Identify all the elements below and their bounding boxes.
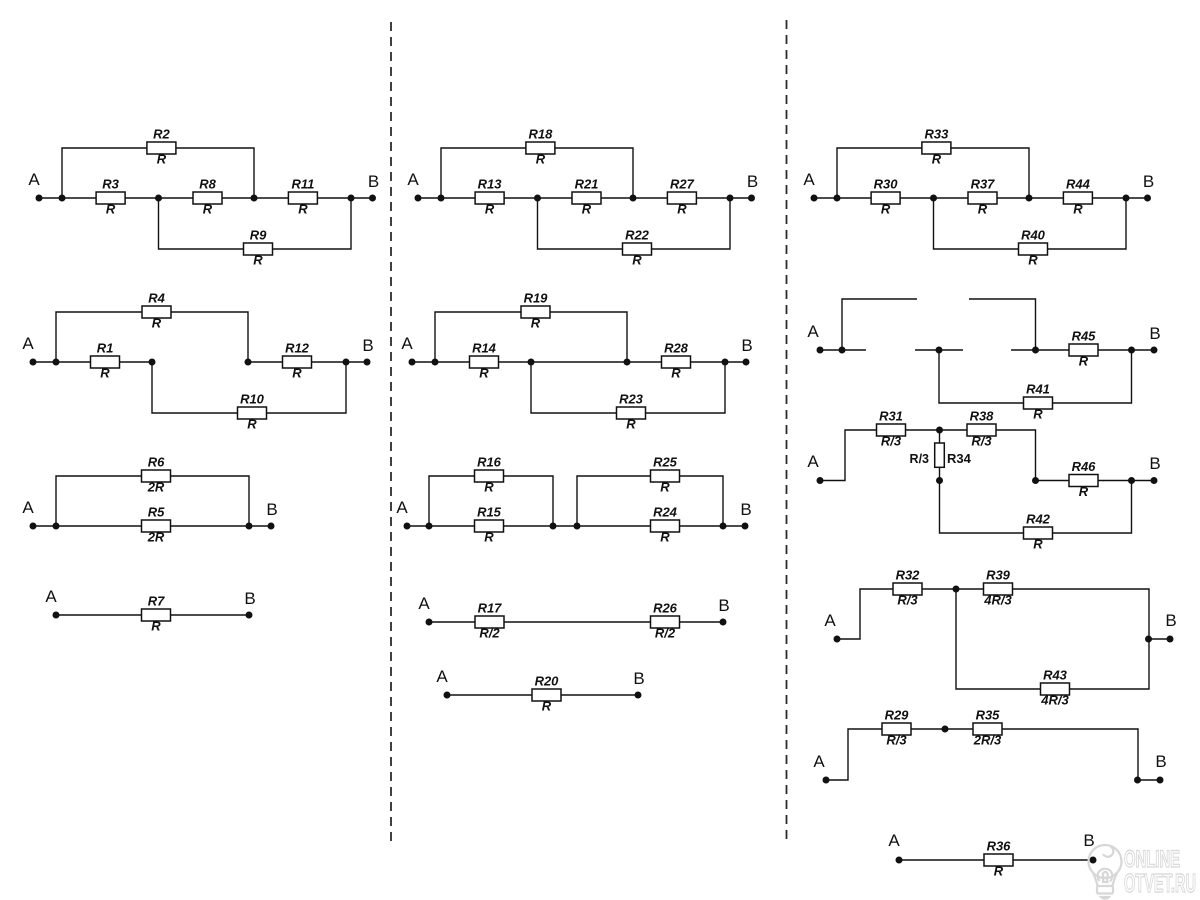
wire top branch R25 [577, 476, 723, 526]
junction [930, 195, 937, 202]
wire top branch right (open) [969, 299, 1036, 350]
node A [807, 452, 823, 484]
node B [266, 500, 277, 530]
junction [624, 359, 631, 366]
svg-text:R36: R36 [987, 839, 1012, 854]
resistor R14 [470, 341, 499, 381]
resistor R9 [244, 228, 273, 268]
svg-text:B: B [1149, 454, 1160, 473]
junction [1134, 777, 1141, 784]
junction M [936, 427, 943, 434]
svg-text:R: R [1028, 253, 1038, 268]
svg-text:B: B [740, 500, 751, 519]
junction [1032, 347, 1039, 354]
junction [834, 195, 841, 202]
wire top branch R2 [62, 148, 254, 198]
svg-text:R/2: R/2 [655, 626, 676, 641]
svg-text:OTVET.RU: OTVET.RU [1124, 868, 1196, 898]
resistor R31 [877, 409, 906, 449]
junction [59, 195, 66, 202]
resistor R25 [651, 455, 680, 495]
wire main A-B [418, 197, 752, 199]
svg-text:R8: R8 [199, 177, 216, 192]
svg-text:R20: R20 [535, 674, 560, 689]
svg-text:A: A [436, 667, 448, 686]
wire main left [33, 361, 152, 363]
wire main A-B [814, 197, 1148, 199]
resistor R27 [667, 177, 696, 217]
wire main right [248, 361, 367, 363]
node B [1155, 752, 1166, 784]
junction [574, 523, 581, 530]
resistor R20 [532, 674, 561, 714]
svg-text:A: A [807, 322, 819, 341]
svg-text:R: R [292, 366, 302, 381]
svg-text:2R: 2R [147, 530, 165, 545]
node A [22, 334, 36, 366]
resistor R42 [1024, 512, 1053, 552]
svg-text:R: R [203, 202, 213, 217]
svg-text:R32: R32 [896, 568, 921, 583]
junction [53, 523, 60, 530]
resistor R39 [983, 568, 1012, 608]
svg-text:R: R [485, 202, 495, 217]
svg-text:R1: R1 [97, 341, 114, 356]
svg-text:A: A [22, 334, 34, 353]
junction [1128, 347, 1135, 354]
svg-text:R29: R29 [885, 708, 910, 723]
node A [22, 498, 36, 530]
svg-text:R: R [660, 480, 670, 495]
resistor R10 [238, 392, 267, 432]
svg-text:B: B [741, 336, 752, 355]
svg-text:R19: R19 [524, 291, 549, 306]
wire bottom branch R40 [934, 198, 1127, 249]
svg-text:4R/3: 4R/3 [983, 593, 1012, 608]
node A [28, 170, 42, 202]
junction [630, 195, 637, 202]
svg-text:R7: R7 [148, 594, 165, 609]
svg-text:B: B [1083, 831, 1094, 850]
dashed separator line 2 [786, 20, 788, 841]
svg-text:R/2: R/2 [479, 626, 500, 641]
svg-text:R28: R28 [664, 341, 689, 356]
node A [407, 170, 421, 202]
svg-text:B: B [362, 336, 373, 355]
junction [432, 359, 439, 366]
svg-text:R: R [932, 152, 942, 167]
svg-text:R42: R42 [1026, 512, 1051, 527]
node B [244, 589, 255, 619]
resistor R33 [922, 127, 951, 167]
wire branch R29 R35 [826, 729, 1138, 780]
resistor R32 [893, 568, 922, 608]
svg-text:R46: R46 [1072, 459, 1097, 474]
svg-text:R: R [298, 202, 308, 217]
svg-text:B: B [368, 172, 379, 191]
wire main A-B [412, 361, 746, 363]
resistor R4 [142, 291, 171, 331]
svg-text:A: A [813, 752, 825, 771]
junction [942, 726, 949, 733]
resistor R35 [973, 708, 1002, 748]
svg-text:A: A [888, 831, 900, 850]
svg-text:R/3: R/3 [886, 733, 907, 748]
resistor R40 [1019, 228, 1048, 268]
svg-text:R24: R24 [653, 505, 678, 520]
resistor R44 [1063, 177, 1092, 217]
svg-text:R45: R45 [1072, 329, 1097, 344]
node B [1165, 611, 1176, 643]
svg-text:R16: R16 [477, 455, 502, 470]
svg-text:R: R [484, 530, 494, 545]
wire top branch R19 [435, 312, 627, 362]
svg-text:B: B [1165, 611, 1176, 630]
svg-text:R30: R30 [874, 177, 899, 192]
svg-text:R4: R4 [148, 291, 165, 306]
svg-text:R39: R39 [986, 568, 1011, 583]
svg-text:R: R [152, 316, 162, 331]
svg-text:R/3: R/3 [881, 434, 902, 449]
wire main A-B [447, 694, 638, 696]
wire main A-B [56, 614, 249, 616]
junction [1145, 636, 1152, 643]
resistor R1 [91, 341, 120, 381]
resistor R46 [1069, 459, 1098, 499]
wire right through R45 [1011, 349, 1154, 351]
junction [936, 347, 943, 354]
junction [720, 523, 727, 530]
resistor R11 [288, 177, 317, 217]
svg-text:R3: R3 [102, 177, 119, 192]
wire bottom branch R41 [939, 350, 1132, 403]
junction [1032, 477, 1039, 484]
node A [45, 587, 59, 619]
svg-text:R: R [484, 480, 494, 495]
svg-text:R: R [677, 202, 687, 217]
resistor R21 [572, 177, 601, 217]
svg-text:R: R [582, 202, 592, 217]
resistor R24 [651, 505, 680, 545]
svg-text:R: R [157, 152, 167, 167]
svg-text:R26: R26 [653, 601, 678, 616]
node A [807, 322, 823, 354]
wire B stub [1138, 779, 1160, 781]
svg-text:B: B [718, 596, 729, 615]
junction N [936, 477, 943, 484]
svg-text:R: R [1079, 354, 1089, 369]
node A [401, 334, 415, 366]
resistor R36 [984, 839, 1013, 879]
svg-text:2R: 2R [147, 480, 165, 495]
junction [343, 359, 350, 366]
svg-text:R41: R41 [1026, 382, 1050, 397]
watermark lightbulb icon [1089, 845, 1122, 899]
svg-text:R: R [1073, 202, 1083, 217]
resistor R38 [967, 409, 996, 449]
svg-text:B: B [633, 669, 644, 688]
resistor R22 [623, 228, 652, 268]
node B [362, 336, 373, 366]
svg-text:A: A [407, 170, 419, 189]
svg-text:R38: R38 [970, 409, 995, 424]
junction [155, 195, 162, 202]
wire main A-B [33, 525, 271, 527]
resistor R6 [142, 455, 171, 495]
svg-text:R14: R14 [472, 341, 497, 356]
wire bottom branch R42 [940, 481, 1132, 534]
svg-text:R10: R10 [240, 392, 265, 407]
node B [1149, 454, 1160, 484]
svg-text:R: R [151, 619, 161, 634]
resistor R5 [142, 505, 171, 545]
svg-text:R/3: R/3 [971, 434, 992, 449]
node B [1149, 324, 1160, 354]
svg-text:R/3: R/3 [897, 593, 918, 608]
wire bottom branch R23 [531, 362, 725, 413]
wire bottom branch R10 [152, 362, 346, 413]
wire top branch R16 [429, 476, 553, 526]
svg-text:A: A [28, 170, 40, 189]
node B [1083, 831, 1096, 864]
resistor R13 [475, 177, 504, 217]
junction [426, 523, 433, 530]
junction [722, 359, 729, 366]
svg-text:R11: R11 [291, 177, 314, 192]
junction [149, 359, 156, 366]
junction [348, 195, 355, 202]
svg-text:R: R [253, 253, 263, 268]
svg-text:B: B [1155, 752, 1166, 771]
node B [741, 336, 752, 366]
dashed separator line 1 [390, 22, 392, 841]
node B [1143, 172, 1154, 202]
resistor R15 [475, 505, 504, 545]
svg-text:B: B [1149, 324, 1160, 343]
node B [718, 596, 729, 626]
svg-text:R34: R34 [947, 451, 972, 466]
junction [953, 586, 960, 593]
wire main A-B [899, 859, 1093, 861]
junction [528, 359, 535, 366]
resistor R12 [283, 341, 312, 381]
wire bottom branch R22 [538, 198, 731, 249]
wire R38 branch [940, 430, 1036, 481]
svg-text:R: R [1079, 484, 1089, 499]
svg-text:B: B [747, 172, 758, 191]
svg-text:R: R [247, 417, 257, 432]
wire middle stub [915, 349, 963, 351]
node A [813, 752, 829, 784]
resistor R23 [617, 392, 646, 432]
wire through R46 [1036, 480, 1155, 482]
wire bottom branch R9 [159, 198, 352, 249]
svg-text:R6: R6 [148, 455, 165, 470]
wire main A-B [429, 621, 723, 623]
wire A to R31 branch [820, 430, 940, 481]
wire bottom branch R43 [956, 589, 1149, 689]
svg-text:R9: R9 [250, 228, 267, 243]
wire main A-B [39, 197, 373, 199]
resistor R30 [871, 177, 900, 217]
svg-text:A: A [45, 587, 57, 606]
resistor R26 [651, 601, 680, 641]
junction [246, 523, 253, 530]
svg-text:R: R [994, 864, 1004, 879]
svg-text:R13: R13 [478, 177, 503, 192]
junction [727, 195, 734, 202]
svg-text:R: R [542, 699, 552, 714]
svg-text:R43: R43 [1043, 668, 1068, 683]
svg-text:R2: R2 [153, 127, 170, 142]
svg-text:B: B [1143, 172, 1154, 191]
svg-text:B: B [244, 589, 255, 608]
junction [251, 195, 258, 202]
svg-text:R40: R40 [1021, 228, 1046, 243]
node B [740, 500, 751, 530]
svg-text:R: R [100, 366, 110, 381]
junction [550, 523, 557, 530]
node A [803, 170, 817, 202]
svg-text:A: A [807, 452, 819, 471]
resistor R17 [475, 601, 504, 641]
svg-text:R: R [1033, 407, 1043, 422]
node A [436, 667, 450, 699]
svg-text:R37: R37 [971, 177, 996, 192]
svg-text:A: A [396, 498, 408, 517]
wire B stub [1149, 638, 1170, 640]
svg-text:A: A [22, 498, 34, 517]
svg-text:R: R [881, 202, 891, 217]
svg-text:R: R [1033, 537, 1043, 552]
svg-text:R15: R15 [477, 505, 502, 520]
node A [888, 831, 902, 864]
wire top branch left (open) [842, 299, 917, 350]
wire A stub [820, 349, 866, 351]
svg-text:R: R [106, 202, 116, 217]
resistor R43 [1040, 668, 1069, 708]
junction [534, 195, 541, 202]
svg-text:4R/3: 4R/3 [1040, 693, 1069, 708]
node B [633, 669, 644, 699]
svg-text:A: A [824, 611, 836, 630]
svg-text:R31: R31 [879, 409, 903, 424]
resistor R41 [1024, 382, 1053, 422]
svg-text:B: B [266, 500, 277, 519]
svg-text:R: R [536, 152, 546, 167]
node B [747, 172, 758, 202]
svg-text:R22: R22 [625, 228, 650, 243]
svg-text:R5: R5 [148, 505, 165, 520]
svg-text:R25: R25 [653, 455, 678, 470]
resistor R45 [1069, 329, 1098, 369]
wire top branch R4 [56, 312, 248, 362]
svg-text:R/3: R/3 [910, 452, 930, 466]
resistor R3 [96, 177, 125, 217]
svg-text:R: R [479, 366, 489, 381]
resistor R34 [910, 443, 972, 467]
svg-text:R44: R44 [1066, 177, 1091, 192]
svg-text:R: R [978, 202, 988, 217]
svg-text:R: R [626, 417, 636, 432]
wire R34 vertical [939, 430, 941, 481]
wire top branch R18 [441, 148, 633, 198]
resistor R19 [521, 291, 550, 331]
junction [53, 359, 60, 366]
resistor R8 [193, 177, 222, 217]
junction [839, 347, 846, 354]
svg-text:R23: R23 [619, 392, 644, 407]
svg-text:R17: R17 [478, 601, 503, 616]
svg-text:R: R [632, 253, 642, 268]
wire top branch R33 [837, 148, 1029, 198]
wire main A-B [407, 525, 745, 527]
svg-text:R27: R27 [670, 177, 695, 192]
svg-text:R: R [660, 530, 670, 545]
junction [438, 195, 445, 202]
svg-text:2R/3: 2R/3 [973, 733, 1002, 748]
svg-text:R33: R33 [924, 127, 949, 142]
resistor R2 [147, 127, 176, 167]
resistor R29 [882, 708, 911, 748]
junction [1026, 195, 1033, 202]
wire top branch R6 [56, 476, 249, 526]
svg-text:A: A [418, 594, 430, 613]
wire top branch R32 R39 [837, 589, 1149, 639]
resistor R37 [968, 177, 997, 217]
svg-text:R18: R18 [528, 127, 553, 142]
junction [1128, 477, 1135, 484]
svg-text:R: R [531, 316, 541, 331]
svg-text:R35: R35 [976, 708, 1001, 723]
junction [1123, 195, 1130, 202]
svg-text:R21: R21 [575, 177, 599, 192]
node B [368, 172, 379, 202]
node A [824, 611, 840, 643]
svg-text:A: A [401, 334, 413, 353]
resistor R28 [662, 341, 691, 381]
junction [245, 359, 252, 366]
node A [396, 498, 410, 530]
svg-text:A: A [803, 170, 815, 189]
resistor R16 [475, 455, 504, 495]
svg-text:R: R [671, 366, 681, 381]
resistor R18 [526, 127, 555, 167]
svg-text:R12: R12 [285, 341, 310, 356]
node A [418, 594, 432, 626]
resistor R7 [142, 594, 171, 634]
